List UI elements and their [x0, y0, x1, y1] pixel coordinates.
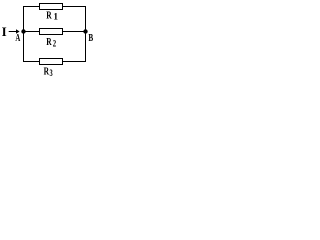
svg-text:I: I [2, 24, 7, 39]
svg-text:1: 1 [53, 13, 58, 23]
svg-text:R: R [46, 10, 52, 22]
svg-text:A: A [15, 32, 20, 44]
svg-text:3: 3 [50, 69, 53, 79]
svg-text:R: R [46, 36, 52, 48]
svg-text:2: 2 [53, 40, 57, 50]
svg-text:B: B [88, 32, 93, 44]
